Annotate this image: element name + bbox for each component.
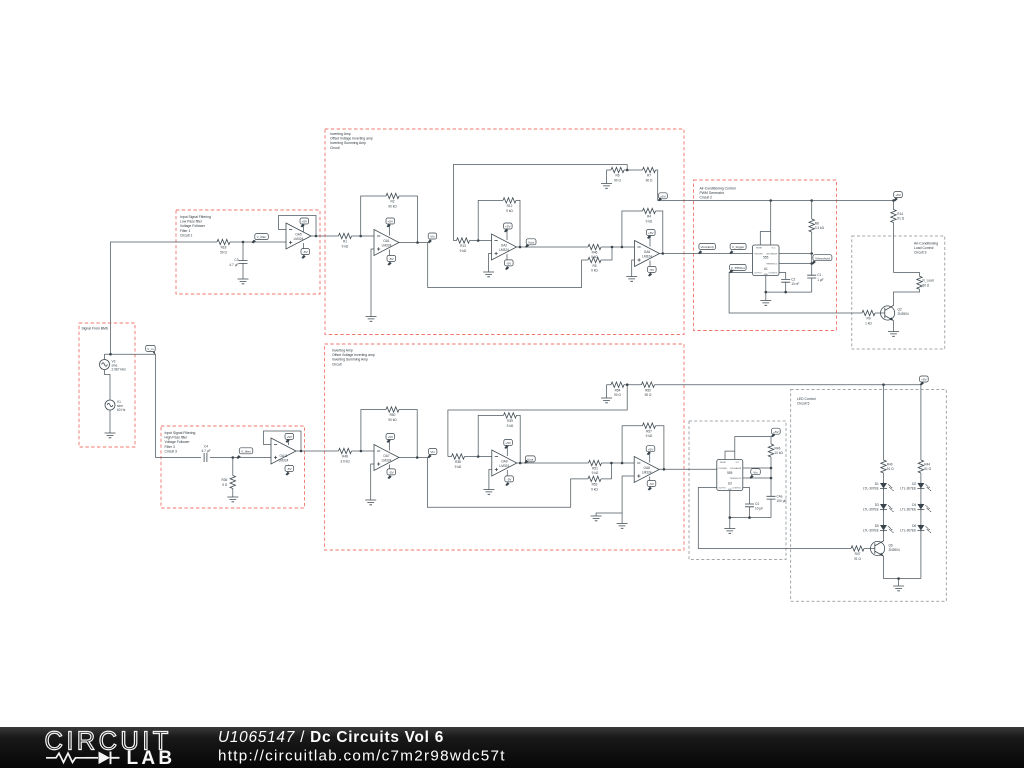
resistor R50 feedback <box>386 407 399 422</box>
svg-text:90 Ω: 90 Ω <box>614 178 621 182</box>
svg-text:Vout: Vout <box>527 458 533 462</box>
svg-text:VCC: VCC <box>772 248 777 250</box>
wire into C4 <box>155 457 271 459</box>
resistor R6 offset <box>607 167 643 182</box>
svg-text:R2: R2 <box>390 200 394 204</box>
svg-text:OA1: OA1 <box>383 239 390 243</box>
svg-text:R54: R54 <box>615 388 621 392</box>
note box: Circuit 3 high pass <box>161 426 305 508</box>
resistor R14 <box>891 201 905 273</box>
svg-text:R40: R40 <box>887 463 893 467</box>
svg-text:R57: R57 <box>646 429 652 433</box>
svg-text:9 kΩ: 9 kΩ <box>507 424 514 428</box>
power flag +5V 555 U3 <box>771 428 780 437</box>
wire 555 U3 ground bus <box>730 491 771 529</box>
resistor R9 base <box>862 310 885 325</box>
node Vout flag bottom <box>524 456 535 464</box>
svg-text:LTL-307EE: LTL-307EE <box>900 487 916 491</box>
ground below 555 U1 <box>760 301 771 306</box>
wire OA3 feedback loop <box>622 211 663 254</box>
svg-text:R1: R1 <box>343 240 347 244</box>
node junction R51/R53 <box>610 462 613 465</box>
svg-text:D6: D6 <box>912 524 916 528</box>
svg-text:Offset Voltage Inverting amp: Offset Voltage Inverting amp <box>330 137 373 141</box>
svg-text:Input Signal Filtering: Input Signal Filtering <box>180 215 211 219</box>
svg-text:U3: U3 <box>728 482 732 486</box>
node junction feedback tap OA8 <box>621 462 624 465</box>
svg-text:2N3904: 2N3904 <box>898 312 909 316</box>
node junction U3 gnd stem <box>729 516 732 519</box>
svg-text:+5V: +5V <box>648 447 655 451</box>
wire C3 stem <box>242 242 244 279</box>
wire offset rail to LED +5V <box>655 384 921 386</box>
node junction threshold U3 <box>770 477 773 480</box>
svg-text:1 µF: 1 µF <box>817 278 823 282</box>
node junction OA2 output <box>519 246 522 249</box>
svg-text:+5V: +5V <box>388 220 395 224</box>
power flag +5V OA7 <box>386 434 395 451</box>
svg-text:Filter 3: Filter 3 <box>165 445 175 449</box>
resistor R1 <box>339 233 352 248</box>
wire left LED chain top <box>883 385 885 542</box>
svg-text:4.7 µF: 4.7 µF <box>201 449 210 453</box>
svg-text:+5V: +5V <box>895 193 902 197</box>
svg-text:90 Ω: 90 Ω <box>645 393 652 397</box>
svg-text:V_trigger: V_trigger <box>732 245 745 249</box>
wire R6 left to ground <box>606 170 608 184</box>
svg-text:Vthreshold: Vthreshold <box>815 256 830 260</box>
svg-text:3.0 kΩ: 3.0 kΩ <box>340 459 350 463</box>
LED D1 <box>863 482 894 491</box>
svg-text:R38: R38 <box>455 460 461 464</box>
svg-text:R8: R8 <box>815 222 819 226</box>
node Vtx flag <box>750 469 761 479</box>
transistor Q2 2N3904 <box>881 305 909 320</box>
svg-text:Circuit: Circuit <box>332 362 342 366</box>
svg-text:D1: D1 <box>875 482 879 486</box>
ground below LED chains <box>893 586 904 591</box>
svg-text:LM324: LM324 <box>294 237 304 241</box>
wire summing junction to OA8 <box>602 462 635 464</box>
power flag -5V OA6 <box>648 261 657 277</box>
wire between V3 and V1 <box>105 370 111 401</box>
svg-text:9 kΩ: 9 kΩ <box>455 465 462 469</box>
LED D6 <box>900 524 931 533</box>
wire 555 U1 supply <box>760 201 770 246</box>
node junction R48/feedback <box>360 450 363 453</box>
resistor R57 feedback <box>643 423 656 438</box>
node V_555Out flag <box>729 264 746 273</box>
svg-text:R53: R53 <box>592 483 598 487</box>
svg-text:OA6: OA6 <box>644 250 651 254</box>
svg-text:Air-Conditioning Control: Air-Conditioning Control <box>700 187 736 191</box>
node junction OA7 output <box>416 456 419 459</box>
svg-text:LAB: LAB <box>127 748 176 768</box>
svg-text:OUTPUT: OUTPUT <box>718 488 727 490</box>
svg-text:D4: D4 <box>912 503 916 507</box>
svg-text:+5V: +5V <box>388 435 395 439</box>
svg-text:Input Signal Filtering: Input Signal Filtering <box>165 431 196 435</box>
wire OA7 output and down-route <box>399 458 611 508</box>
capacitor C4 <box>201 444 210 462</box>
power flag +5V OA1 <box>386 218 395 236</box>
power flag +5V OA8 <box>646 446 655 463</box>
svg-text:LM324: LM324 <box>279 459 289 463</box>
op-amp OA9 <box>492 450 517 476</box>
node junction follower 2 output <box>300 450 303 453</box>
wire OA6 output to PWM trigger <box>660 253 753 255</box>
svg-text:R36: R36 <box>221 478 227 482</box>
svg-text:Circuit 5: Circuit 5 <box>797 402 810 406</box>
wire R48 to OA7 <box>352 450 375 452</box>
svg-text:LTL-307EE: LTL-307EE <box>863 529 879 533</box>
capacitor C4b <box>745 502 763 511</box>
node junction LED rail left chain <box>882 383 885 386</box>
wire 555 U3 output down and right to R47 <box>698 488 851 549</box>
wire OA9 output to summing <box>517 462 589 464</box>
svg-text:R9: R9 <box>866 317 870 321</box>
resistor R2 feedback <box>386 193 399 208</box>
node junction R1/feedback <box>359 235 362 238</box>
wire Q2 emitter to ground <box>893 321 895 332</box>
resistor R7 offset <box>643 167 656 182</box>
svg-text:91 Ω: 91 Ω <box>924 467 931 471</box>
node junction OA1 output <box>416 241 419 244</box>
power flag -5V OA9 <box>505 470 514 486</box>
svg-text:R46: R46 <box>592 251 598 255</box>
wire R14 to R_Load <box>894 273 920 277</box>
svg-text:THRESHOLD: THRESHOLD <box>730 478 742 480</box>
op-amp OA2 <box>492 234 517 260</box>
node V_trigger flag <box>729 244 746 255</box>
svg-text:LM324: LM324 <box>382 244 392 248</box>
node junction R38/feedback <box>477 455 480 458</box>
svg-text:Vout: Vout <box>528 240 534 244</box>
node junction threshold <box>810 262 813 265</box>
op-amp OA7 <box>374 445 399 471</box>
svg-text:OA8: OA8 <box>644 466 651 470</box>
wire R1 to OA1 inverting input <box>352 235 375 237</box>
svg-text:U1065147 / Dc Circuits Vol 6: U1065147 / Dc Circuits Vol 6 <box>218 729 444 746</box>
wire OA1 feedback loop <box>361 196 418 243</box>
svg-text:Filter 1: Filter 1 <box>180 229 190 233</box>
wire follower 2 feedback loop <box>264 431 339 451</box>
op-amp OA5 voltage follower <box>286 223 311 249</box>
resistor R44 <box>918 460 931 473</box>
svg-text:LM324: LM324 <box>499 248 509 252</box>
svg-text:LM324: LM324 <box>382 459 392 463</box>
node junction OA9 output <box>519 462 522 465</box>
svg-text:90 kΩ: 90 kΩ <box>388 204 397 208</box>
resistor R47 base <box>851 546 875 561</box>
node Vin flag top <box>428 233 437 243</box>
svg-text:R50: R50 <box>390 413 396 417</box>
svg-text:RESET: RESET <box>756 248 763 250</box>
svg-text:RESET: RESET <box>720 462 727 464</box>
wire OA1 plus input to ground <box>371 249 374 317</box>
op-amp OA6 <box>635 241 660 267</box>
resistor R4 feedback <box>643 208 656 223</box>
note box: AC load control <box>852 236 945 349</box>
wire R36 stem <box>232 458 234 498</box>
svg-text:Inverting Summing Amp: Inverting Summing Amp <box>332 358 368 362</box>
wire long offset net to stage 2 bottom <box>448 385 627 457</box>
svg-text:R12: R12 <box>507 204 513 208</box>
resistor R8 <box>809 201 825 254</box>
op-amp OA11 voltage follower <box>271 438 296 464</box>
node junction +5V rail / R8 <box>810 199 813 202</box>
wire discharge to R8 <box>779 253 812 255</box>
svg-text:4.7 µF: 4.7 µF <box>229 263 238 267</box>
wire OA6 plus input to ground <box>632 260 635 277</box>
wire R54 left to ground <box>606 385 608 398</box>
wire V1 to ground <box>109 410 111 433</box>
svg-text:10 µF: 10 µF <box>755 507 763 511</box>
svg-text:9 kΩ: 9 kΩ <box>506 209 513 213</box>
svg-text:R18: R18 <box>221 246 227 250</box>
svg-text:Vtx: Vtx <box>753 470 758 474</box>
resistor R18 <box>217 239 230 254</box>
transistor Q6 2N3904 <box>871 541 900 556</box>
svg-text:VCC: VCC <box>736 462 741 464</box>
svg-text:OA9: OA9 <box>501 459 508 463</box>
svg-text:Signal From BMS: Signal From BMS <box>82 327 109 331</box>
node junction +5V rail end <box>892 199 895 202</box>
resistor R_Load <box>917 276 934 289</box>
svg-text:Low Pass filter: Low Pass filter <box>180 220 203 224</box>
node junction OA8 output <box>663 468 666 471</box>
svg-text:http://circuitlab.com/c7m2r98w: http://circuitlab.com/c7m2r98wdc57t <box>218 748 506 765</box>
SECTION BOXES <box>79 129 946 601</box>
resistor R51 summing <box>589 460 602 475</box>
power flag -5V OA7 <box>387 465 396 480</box>
wire OA9 feedback loop <box>478 415 520 463</box>
wire control U3 to C4b <box>743 488 750 518</box>
wire R_Load to collector <box>894 289 920 305</box>
555 timer U3 <box>717 460 743 491</box>
svg-text:LM324: LM324 <box>499 464 509 468</box>
wire follower feedback loop <box>279 216 339 237</box>
svg-text:+5V: +5V <box>921 378 928 382</box>
note box: 555 timer 2 <box>689 421 786 560</box>
node junction OA6 output <box>662 252 665 255</box>
555 timer U1 <box>753 245 780 276</box>
svg-text:OUTPUT: OUTPUT <box>754 273 763 275</box>
node junction R46/R5 <box>611 246 614 249</box>
node junction +5V rail / 555 supply <box>769 199 772 202</box>
svg-text:9 kΩ: 9 kΩ <box>342 244 349 248</box>
LED D4 <box>900 503 931 512</box>
ground below V1 <box>105 433 116 438</box>
wire 555 U3 supply <box>725 437 771 460</box>
note box: bottom inverting amp chain <box>325 344 684 550</box>
svg-text:+5V: +5V <box>287 435 294 439</box>
LED D3 <box>863 503 894 512</box>
node V_filter flag <box>252 234 269 244</box>
capacitor C1 <box>807 273 823 292</box>
node junction follower output <box>315 235 318 238</box>
svg-text:LTL-307EE: LTL-307EE <box>900 508 916 512</box>
svg-text:OA11: OA11 <box>280 454 288 458</box>
svg-text:51 Ω: 51 Ω <box>897 217 904 221</box>
svg-text:9 kΩ: 9 kΩ <box>591 487 598 491</box>
svg-text:LM324: LM324 <box>642 255 652 259</box>
ground below C3 <box>238 279 249 284</box>
svg-text:PWM Generator: PWM Generator <box>700 191 725 195</box>
ground below Q2 <box>888 332 899 337</box>
resistor R40 <box>881 460 894 473</box>
svg-text:R51: R51 <box>592 467 598 471</box>
wire R18 to op-amp <box>230 241 286 243</box>
svg-text:Voltage Follower: Voltage Follower <box>165 440 191 444</box>
svg-text:90 Ω: 90 Ω <box>646 178 653 182</box>
svg-text:3.3 kΩ: 3.3 kΩ <box>815 226 825 230</box>
svg-text:555: 555 <box>727 471 733 475</box>
svg-text:THRESHOLD: THRESHOLD <box>766 264 778 266</box>
svg-text:Circuit 2: Circuit 2 <box>700 196 713 200</box>
svg-text:CONTROL: CONTROL <box>732 488 741 490</box>
svg-text:R50: R50 <box>645 388 651 392</box>
power flag +5V LED rail <box>920 376 929 385</box>
node junction R54/R50b <box>626 383 629 386</box>
op-amp OA1 <box>374 230 399 256</box>
wire OA7 plus input to ground <box>371 464 374 500</box>
ground pair below OA8 <box>591 516 602 521</box>
svg-text:91 Ω: 91 Ω <box>887 467 894 471</box>
ground below R6 <box>601 184 612 189</box>
node junction at source top <box>109 353 112 356</box>
svg-text:C3: C3 <box>234 258 238 262</box>
wire right LED chain <box>920 385 922 579</box>
ground below OA2 <box>483 272 494 277</box>
node junction R6/R7 <box>626 169 629 172</box>
svg-text:Inverting Amp: Inverting Amp <box>330 132 351 136</box>
wire control to C2 <box>779 273 786 293</box>
power flag +5V rail right <box>894 192 903 202</box>
note box: Signal From BMS <box>79 323 135 447</box>
node V_in flag <box>146 345 156 354</box>
svg-text:OA7: OA7 <box>383 454 390 458</box>
svg-text:100 µF: 100 µF <box>777 499 787 503</box>
wire summing junction to OA3 <box>601 246 635 248</box>
wire 555 output down and right to R9 <box>729 273 862 314</box>
svg-text:+5V: +5V <box>648 231 655 235</box>
wire: V_in net top <box>105 242 218 458</box>
svg-text:9 kΩ: 9 kΩ <box>460 249 467 253</box>
note box: Circuit 1 low pass <box>176 210 320 294</box>
wire OA1 output and down-route <box>399 243 612 288</box>
svg-text:50 Ω: 50 Ω <box>923 283 930 287</box>
svg-text:LTL-307EE: LTL-307EE <box>863 508 879 512</box>
svg-text:90 Ω: 90 Ω <box>614 393 621 397</box>
svg-text:+5V: +5V <box>660 194 667 198</box>
node junction R18/C3 <box>242 241 245 244</box>
svg-text:R47: R47 <box>855 552 861 556</box>
wire OA8 feedback loop <box>622 426 664 470</box>
node junction feedback tap OA3 <box>621 246 624 249</box>
svg-text:R13: R13 <box>460 244 466 248</box>
ground below 555 U3 <box>724 529 735 534</box>
resistor R54 offset bottom <box>607 382 642 397</box>
node junction R13/feedback <box>477 239 480 242</box>
LED D2 <box>900 482 931 491</box>
svg-text:TRIGGER: TRIGGER <box>754 254 763 256</box>
op-amp OA8 <box>634 457 659 483</box>
svg-text:Q2: Q2 <box>898 308 902 312</box>
resistor R13 <box>457 238 470 253</box>
svg-text:9 kΩ: 9 kΩ <box>591 269 598 273</box>
svg-text:R4: R4 <box>647 215 651 219</box>
wire threshold U3 <box>743 477 771 479</box>
ground below OA9 <box>483 490 494 495</box>
svg-text:LM324: LM324 <box>642 471 652 475</box>
svg-text:Vin: Vin <box>430 235 435 239</box>
wire OA2 plus input to ground <box>489 254 492 273</box>
resistor R12 feedback <box>503 198 516 213</box>
power flag -5V OA11 <box>285 465 294 476</box>
ground below OA6 <box>626 277 637 282</box>
svg-text:R7: R7 <box>647 174 651 178</box>
note box: LED control <box>791 390 947 602</box>
wire OA8 plus input to grounds <box>596 476 634 516</box>
svg-text:C4: C4 <box>204 444 208 448</box>
node junction discharge U3 <box>770 467 773 470</box>
node junction C4b ground bus <box>748 516 751 519</box>
node junction discharge <box>810 252 813 255</box>
svg-text:2N3904: 2N3904 <box>889 548 900 552</box>
svg-text:C4a: C4a <box>777 494 783 498</box>
svg-text:60 Hz: 60 Hz <box>117 408 126 412</box>
svg-text:Q6: Q6 <box>889 544 893 548</box>
svg-text:LED Control: LED Control <box>797 397 816 401</box>
svg-text:9 kΩ: 9 kΩ <box>646 434 653 438</box>
voltage source V3 <box>100 360 127 372</box>
svg-text:U1: U1 <box>764 267 768 271</box>
svg-text:OA2: OA2 <box>501 243 508 247</box>
svg-text:10 kΩ: 10 kΩ <box>775 451 784 455</box>
capacitor C2 <box>781 277 799 286</box>
node Vthreshold flag <box>812 255 832 265</box>
svg-text:R_Load: R_Load <box>923 279 934 283</box>
svg-text:2.987 kHz: 2.987 kHz <box>112 368 127 372</box>
svg-text:DISCHARGE: DISCHARGE <box>730 467 742 470</box>
svg-text:Circuit: Circuit <box>330 146 340 150</box>
svg-text:Vout(test): Vout(test) <box>700 245 713 249</box>
svg-text:Inverting Amp: Inverting Amp <box>332 349 353 353</box>
wire long offset net to stage 2 <box>453 165 627 241</box>
power flag -5V OA1 <box>387 250 396 266</box>
resistor R5 lower summing <box>588 257 601 272</box>
resistor R38 <box>452 454 465 469</box>
wire OA7 feedback loop <box>361 410 417 458</box>
svg-text:Load Control: Load Control <box>914 246 934 250</box>
wire R7 to +5V rail corner <box>656 170 894 201</box>
svg-text:LTL-307EE: LTL-307EE <box>863 487 879 491</box>
power flag -5V OA5 <box>301 243 310 259</box>
wire R13 to OA2 <box>470 240 492 242</box>
wire 555 ground bus <box>766 276 812 301</box>
svg-text:Vin: Vin <box>430 450 435 454</box>
node junction C2 ground bus <box>784 291 787 294</box>
power flag +5V OA5 <box>300 218 309 232</box>
svg-text:Air-Conditioning: Air-Conditioning <box>914 242 938 246</box>
resistor R46 summing <box>588 244 601 259</box>
svg-text:D2: D2 <box>912 482 916 486</box>
node Vin flag bottom <box>427 449 437 459</box>
svg-text:Circuit 3: Circuit 3 <box>914 251 927 255</box>
svg-text:R48: R48 <box>342 455 348 459</box>
svg-text:Offset Voltage Inverting amp: Offset Voltage Inverting amp <box>332 353 375 357</box>
